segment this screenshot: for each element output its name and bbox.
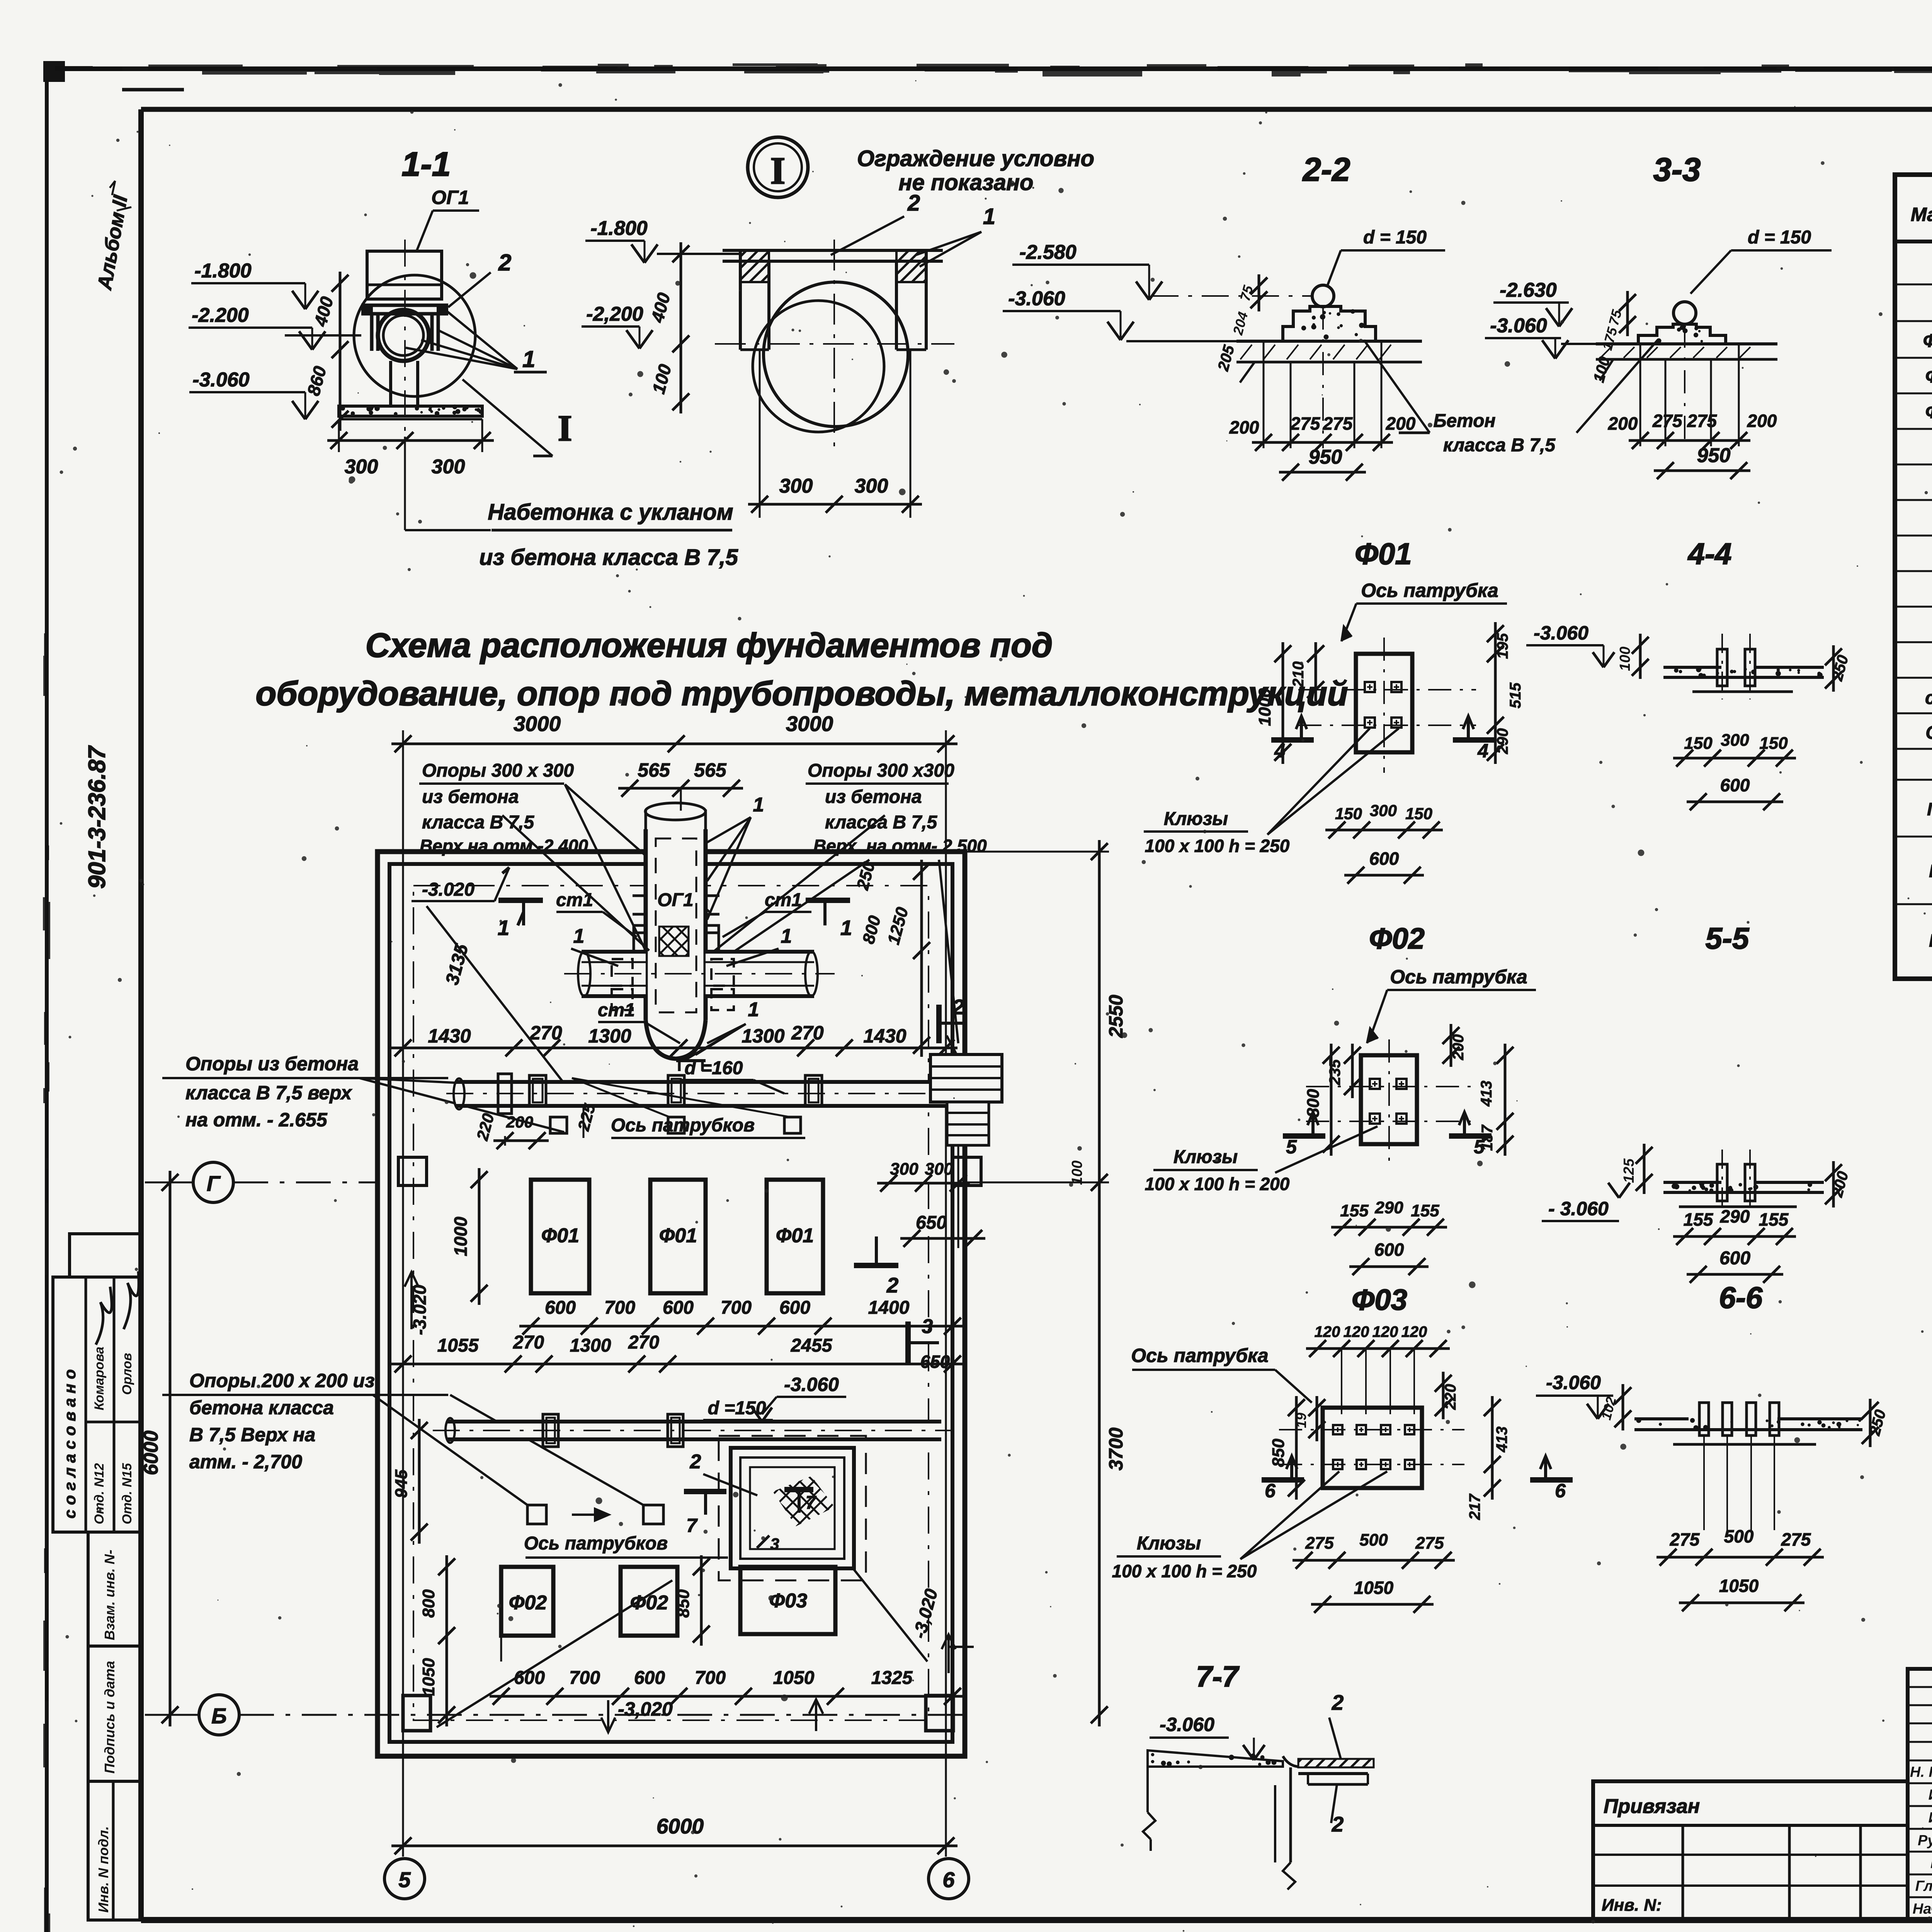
- svg-text:1: 1: [522, 346, 535, 372]
- svg-text:из бетона класса В 7,5: из бетона класса В 7,5: [479, 545, 738, 570]
- svg-text:Ф03: Ф03: [769, 1590, 808, 1612]
- svg-text:Набетонка с укланом: Набетонка с укланом: [488, 500, 733, 525]
- svg-text:d = 150: d = 150: [1363, 227, 1427, 248]
- plan left annotation опоры -2.655: [162, 1053, 564, 1132]
- svg-text:Бетон: Бетон: [1433, 411, 1495, 431]
- svg-text:600: 600: [1720, 775, 1750, 795]
- svg-text:1300: 1300: [742, 1025, 784, 1047]
- svg-text:2: 2: [690, 1451, 701, 1473]
- svg-text:120: 120: [1372, 1323, 1398, 1340]
- svg-text:270: 270: [513, 1332, 544, 1353]
- plan long diagonal leaders: [502, 815, 885, 1117]
- svg-text:Орлов: Орлов: [120, 1353, 134, 1395]
- svg-text:125: 125: [1621, 1158, 1637, 1183]
- svg-text:300: 300: [779, 475, 813, 497]
- svg-text:2550: 2550: [1105, 995, 1127, 1038]
- svg-text:650: 650: [920, 1352, 950, 1372]
- svg-text:413: 413: [1493, 1427, 1510, 1453]
- svg-text:1000: 1000: [1255, 688, 1274, 726]
- svg-text:300: 300: [855, 475, 888, 497]
- detail Ф02 label ось патрубка: [1367, 966, 1536, 1043]
- svg-text:3: 3: [770, 1535, 779, 1553]
- svg-text:600: 600: [663, 1298, 694, 1318]
- svg-text:Инв. N подл.: Инв. N подл.: [95, 1826, 111, 1913]
- svg-text:Марка: Марка: [1911, 204, 1932, 225]
- svg-text:1: 1: [498, 916, 510, 940]
- svg-text:Ось патрубка: Ось патрубка: [1361, 580, 1498, 601]
- svg-text:1325: 1325: [871, 1668, 913, 1688]
- detail Ф01 bottom dims: [1325, 801, 1443, 884]
- svg-text:Ф02: Ф02: [1369, 922, 1425, 955]
- plan dims 300 300 650 right: [877, 1145, 985, 1248]
- svg-text:Клюзы: Клюзы: [1164, 809, 1228, 829]
- plan title: [256, 626, 1348, 713]
- svg-text:1050: 1050: [773, 1668, 815, 1688]
- svg-text:Поз. 3: Поз. 3: [1929, 930, 1932, 951]
- svg-text:Н. Контр.: Н. Контр.: [1910, 1764, 1932, 1780]
- plan опоры labels top-right: [701, 760, 987, 1043]
- svg-text:300: 300: [1721, 731, 1749, 750]
- svg-text:235: 235: [1327, 1059, 1344, 1085]
- svg-text:Нач.отд.: Нач.отд.: [1913, 1901, 1932, 1917]
- svg-text:Ф03: Ф03: [1352, 1284, 1407, 1316]
- svg-text:210: 210: [1290, 662, 1307, 688]
- plan dim 565 565: [618, 759, 743, 831]
- svg-text:-1.800: -1.800: [590, 217, 648, 240]
- svg-text:950: 950: [1697, 444, 1731, 467]
- svg-text:800: 800: [419, 1589, 438, 1618]
- svg-text:Ф01: Ф01: [776, 1225, 814, 1247]
- plan ось патрубков label: [611, 1115, 805, 1138]
- svg-text:413: 413: [1478, 1081, 1495, 1107]
- svg-text:700: 700: [721, 1298, 752, 1318]
- detail Ф03 клюзы label: [1112, 1471, 1387, 1581]
- specification table grid: [1895, 175, 1932, 979]
- svg-text:1400: 1400: [868, 1298, 910, 1318]
- svg-text:Ф02: Ф02: [1925, 366, 1932, 387]
- svg-text:Комарова: Комарова: [92, 1347, 107, 1410]
- svg-text:5: 5: [398, 1867, 411, 1892]
- plan section flags 1-1: [498, 900, 852, 940]
- svg-text:-2,200: -2,200: [586, 303, 643, 325]
- section 6-6 view: [1536, 1372, 1889, 1530]
- svg-text:100 х 100 h = 200: 100 х 100 h = 200: [1145, 1174, 1290, 1194]
- svg-text:Поз. 2: Поз. 2: [1929, 861, 1932, 881]
- svg-text:155: 155: [1340, 1201, 1369, 1220]
- svg-text:I: I: [770, 149, 786, 192]
- plan dims under Ф01: [391, 1298, 964, 1372]
- svg-text:-2.200: -2.200: [192, 304, 249, 327]
- note ограждение условно не показано: [857, 146, 1094, 195]
- svg-text:1: 1: [840, 916, 852, 940]
- plan axis Б: [145, 1695, 966, 1735]
- svg-text:290: 290: [1374, 1198, 1403, 1217]
- svg-text:-3.060: -3.060: [784, 1374, 839, 1395]
- svg-text:Клюзы: Клюзы: [1173, 1147, 1238, 1167]
- svg-text:атм. - 2,700: атм. - 2,700: [189, 1451, 302, 1473]
- section 3-3 bottom dims: [1608, 325, 1777, 479]
- svg-text:6000: 6000: [140, 1430, 162, 1475]
- svg-text:901-3-236.87: 901-3-236.87: [84, 745, 111, 889]
- plan right vertical dims 2550 3700: [966, 840, 1127, 1726]
- svg-text:120: 120: [1401, 1323, 1427, 1340]
- svg-text:120: 120: [1344, 1323, 1369, 1340]
- plan bottom dim 6000: [391, 1814, 957, 1854]
- plan ось патрубков 2: [524, 1533, 728, 1558]
- svg-text:1050: 1050: [419, 1658, 438, 1696]
- svg-text:200: 200: [1386, 413, 1416, 434]
- svg-text:150: 150: [1335, 804, 1362, 823]
- svg-text:-1.800: -1.800: [194, 260, 252, 282]
- svg-text:Опоры из бетона: Опоры из бетона: [185, 1053, 359, 1075]
- svg-text:100: 100: [1069, 1160, 1085, 1185]
- svg-text:1050: 1050: [1354, 1578, 1394, 1598]
- svg-text:275: 275: [1305, 1534, 1334, 1553]
- svg-text:1: 1: [573, 925, 585, 947]
- svg-text:Отд. N15: Отд. N15: [120, 1463, 134, 1524]
- svg-text:800: 800: [1304, 1089, 1323, 1117]
- svg-text:600: 600: [779, 1298, 810, 1318]
- svg-text:217: 217: [1466, 1493, 1483, 1520]
- svg-text:Г: Г: [207, 1171, 221, 1196]
- svg-text:-3.060: -3.060: [1008, 287, 1065, 310]
- svg-text:2455: 2455: [791, 1335, 833, 1356]
- svg-text:2-2: 2-2: [1302, 151, 1350, 188]
- margin label Альбом II: [93, 181, 132, 292]
- plan dim row 1430/270/1300/1300/270/1430: [391, 1022, 957, 1056]
- svg-text:6000: 6000: [656, 1814, 704, 1838]
- plan lower pipe 2 d=150: [433, 1374, 951, 1524]
- svg-text:7: 7: [806, 1493, 817, 1513]
- svg-text:4-4: 4-4: [1687, 537, 1732, 571]
- svg-text:1430: 1430: [863, 1025, 906, 1047]
- svg-text:1050: 1050: [1719, 1576, 1759, 1596]
- leader бетон класса В7,5: [1364, 340, 1658, 456]
- detail Ф02 section marks 5: [1283, 1112, 1492, 1158]
- svg-text:Ф01: Ф01: [659, 1225, 697, 1247]
- svg-text:Схема расположения фундаментов: Схема расположения фундаментов под: [366, 626, 1053, 664]
- svg-text:5: 5: [1286, 1136, 1297, 1158]
- svg-text:150: 150: [1405, 804, 1432, 823]
- svg-text:Клюзы: Клюзы: [1137, 1533, 1201, 1554]
- svg-text:ст1: ст1: [598, 1000, 635, 1020]
- svg-text:Подпись и дата: Подпись и дата: [102, 1661, 117, 1774]
- plan top dim 3000+3000: [391, 712, 957, 1857]
- svg-text:Ф02: Ф02: [509, 1592, 547, 1614]
- plan small dims 220 200 225: [473, 1102, 599, 1149]
- svg-text:155: 155: [1411, 1201, 1439, 1220]
- svg-text:850: 850: [1269, 1439, 1288, 1467]
- plan building outline: [378, 852, 965, 1756]
- svg-text:200: 200: [1608, 413, 1638, 434]
- svg-text:ОГ1: ОГ1: [657, 890, 694, 910]
- detail Ф01 клюзы label: [1144, 728, 1399, 856]
- detail Ф03 bottom dims: [1293, 1531, 1455, 1613]
- svg-text:2: 2: [498, 250, 511, 276]
- svg-text:300: 300: [890, 1160, 918, 1179]
- svg-text:Ф01: Ф01: [1923, 331, 1932, 351]
- svg-text:275: 275: [1290, 413, 1321, 434]
- plan rotated dims 3135 250 800 1250: [442, 859, 930, 1057]
- plan Ф02 Ф03 foundations: [501, 1567, 835, 1662]
- section 2-2 view: [1003, 227, 1445, 383]
- svg-text:из бетона: из бетона: [825, 787, 922, 807]
- svg-text:1-1: 1-1: [401, 145, 451, 183]
- svg-text:600: 600: [1369, 849, 1399, 869]
- detail Ф02 dims: [1304, 1024, 1514, 1156]
- svg-text:290: 290: [1720, 1206, 1750, 1226]
- svg-text:3000: 3000: [786, 712, 833, 736]
- plan leader -3.020 top left: [412, 867, 580, 1104]
- svg-text:Рук. др.: Рук. др.: [1918, 1832, 1932, 1849]
- detail I circle symbol: [748, 137, 808, 197]
- svg-text:6: 6: [942, 1867, 955, 1892]
- plan annotation опоры 200x200: [162, 1370, 643, 1505]
- svg-text:на отм. - 2.655: на отм. - 2.655: [185, 1109, 328, 1131]
- svg-text:Отд. N12: Отд. N12: [92, 1463, 107, 1524]
- svg-text:600: 600: [514, 1668, 545, 1688]
- svg-text:270: 270: [628, 1332, 659, 1353]
- svg-text:Инж.: Инж.: [1929, 1810, 1932, 1826]
- svg-text:300: 300: [925, 1160, 953, 1179]
- svg-text:Поз. 1: Поз. 1: [1927, 799, 1932, 819]
- svg-text:150: 150: [1684, 734, 1713, 753]
- specification table body texts: [1923, 257, 1932, 979]
- svg-text:3700: 3700: [1105, 1427, 1127, 1470]
- svg-text:275: 275: [1670, 1529, 1700, 1549]
- plan axis circles 5 6: [384, 1859, 969, 1899]
- svg-text:100: 100: [1617, 646, 1633, 671]
- plan dim 1000: [451, 1168, 488, 1305]
- svg-text:Ф01: Ф01: [1355, 537, 1412, 571]
- plan dims 800 1050 850: [419, 1555, 710, 1726]
- svg-text:187: 187: [1479, 1124, 1496, 1151]
- plan section flag 3 right: [908, 1315, 950, 1372]
- svg-text:с о г л а с о в а н о: с о г л а с о в а н о: [61, 1369, 79, 1519]
- svg-text:Б: Б: [211, 1704, 227, 1728]
- svg-text:3000: 3000: [514, 712, 561, 736]
- svg-text:700: 700: [569, 1668, 600, 1688]
- svg-text:6-6: 6-6: [1719, 1281, 1763, 1315]
- plan wall pilasters on axis Г: [398, 1157, 981, 1185]
- svg-text:класса В 7,5: класса В 7,5: [825, 812, 938, 833]
- svg-text:700: 700: [604, 1298, 635, 1318]
- title block signature stamp: [1908, 1669, 1932, 1920]
- svg-text:Ограждение условно: Ограждение условно: [857, 146, 1094, 171]
- svg-text:700: 700: [695, 1668, 726, 1688]
- stamp box Взам. инв. N: [88, 1532, 141, 1646]
- detail Ф03 label ось патрубка: [1131, 1345, 1312, 1403]
- svg-text:Взам. инв. N-: Взам. инв. N-: [102, 1550, 117, 1641]
- detail Ф03 section marks 6: [1262, 1456, 1573, 1502]
- svg-text:-2.580: -2.580: [1019, 241, 1077, 264]
- detail Ф01 dims: [1255, 622, 1524, 764]
- svg-text:4: 4: [1477, 740, 1488, 762]
- detail Ф02 bottom dims: [1331, 1198, 1447, 1275]
- svg-text:-3.060: -3.060: [192, 369, 250, 391]
- svg-text:850: 850: [674, 1589, 693, 1618]
- svg-text:1300: 1300: [570, 1335, 611, 1356]
- svg-text:1300: 1300: [588, 1025, 631, 1047]
- plan Ф01 foundations: [531, 1180, 823, 1293]
- svg-text:275: 275: [1323, 413, 1353, 434]
- svg-text:300: 300: [345, 456, 378, 478]
- plan ст1 and ОГ1 labels: [556, 794, 811, 1061]
- detail Ф03 plan: [1279, 1408, 1464, 1488]
- svg-text:565: 565: [638, 759, 670, 781]
- svg-text:200: 200: [1450, 1034, 1467, 1061]
- svg-text:-3.060: -3.060: [1490, 315, 1547, 337]
- plan section flag 2 bottom: [854, 1236, 899, 1297]
- svg-text:Ось патрубка: Ось патрубка: [1390, 966, 1527, 988]
- svg-text:Опоры 300 х300: Опоры 300 х300: [808, 760, 954, 781]
- section 1-1 level marks: [189, 260, 325, 419]
- detail I plan bottom dims 300/300: [748, 350, 922, 518]
- svg-text:-3,020: -3,020: [618, 1698, 673, 1720]
- svg-text:ОГ1: ОГ1: [431, 187, 469, 208]
- svg-text:1: 1: [748, 998, 759, 1021]
- svg-text:ОГ1: ОГ1: [1925, 723, 1932, 743]
- svg-text:бетона класса: бетона класса: [189, 1397, 334, 1418]
- svg-text:300: 300: [1370, 801, 1397, 820]
- plan pit 7-7 square: [684, 1436, 866, 1580]
- section 3-3 view: [1485, 227, 1832, 384]
- svg-text:d =160: d =160: [685, 1058, 743, 1078]
- plan lower pipe d=160: [446, 1058, 989, 1114]
- svg-text:d = 150: d = 150: [1748, 227, 1811, 248]
- svg-text:- 3.060: - 3.060: [1548, 1198, 1609, 1219]
- svg-text:Гл.спец.: Гл.спец.: [1915, 1878, 1932, 1894]
- plan corner pilasters axis Б: [403, 1570, 953, 1731]
- section 5-5 view: [1542, 1144, 1852, 1221]
- svg-text:275: 275: [1415, 1534, 1444, 1553]
- svg-text:Инж.: Инж.: [1929, 1787, 1932, 1803]
- svg-text:ГИП: ГИП: [1930, 1855, 1932, 1871]
- svg-text:-3.060: -3.060: [1160, 1714, 1214, 1735]
- svg-text:155: 155: [1759, 1209, 1789, 1230]
- svg-text:500: 500: [1724, 1526, 1754, 1546]
- svg-text:класса В 7,5 верх: класса В 7,5 верх: [185, 1082, 352, 1104]
- detail Ф02 plan: [1306, 1039, 1472, 1163]
- svg-text:5-5: 5-5: [1706, 921, 1750, 955]
- svg-text:565: 565: [694, 759, 727, 781]
- svg-text:600: 600: [1719, 1248, 1750, 1269]
- svg-text:515: 515: [1507, 682, 1524, 708]
- detail I plan level marks and dims: [582, 217, 740, 413]
- svg-text:19: 19: [1293, 1413, 1309, 1428]
- svg-text:1055: 1055: [437, 1335, 479, 1356]
- svg-text:1: 1: [781, 925, 792, 947]
- plan опоры labels top-left: [419, 760, 709, 974]
- svg-text:Опоры 200 х 200 из: Опоры 200 х 200 из: [189, 1370, 375, 1391]
- detail Ф01 plan: [1298, 638, 1476, 773]
- svg-text:1000: 1000: [451, 1216, 471, 1256]
- section 4-4 view: [1526, 622, 1852, 699]
- svg-text:100 х 100 h = 250: 100 х 100 h = 250: [1112, 1561, 1257, 1581]
- svg-text:Инв. N:: Инв. N:: [1602, 1896, 1662, 1915]
- svg-text:300: 300: [432, 456, 465, 478]
- svg-text:2: 2: [952, 995, 964, 1019]
- detail Ф03 top dims 120x4: [1306, 1323, 1450, 1414]
- svg-text:оборудование, опор под трубопр: оборудование, опор под трубопроводы, мет…: [256, 674, 1348, 713]
- svg-text:200: 200: [1229, 417, 1259, 437]
- section 1-1 bottom dims 300/300: [327, 419, 494, 530]
- svg-text:-3.060: -3.060: [1534, 622, 1588, 644]
- svg-text:1: 1: [753, 794, 764, 816]
- plan rotated -3.020 labels: [405, 1271, 974, 1673]
- svg-text:600: 600: [1374, 1240, 1404, 1260]
- svg-text:275 275: 275 275: [1652, 411, 1718, 431]
- detail Ф03 dims: [1269, 1372, 1510, 1520]
- svg-text:-3.060: -3.060: [1546, 1372, 1601, 1393]
- svg-text:Ф01: Ф01: [541, 1225, 579, 1247]
- svg-text:Опоры 300 х 300: Опоры 300 х 300: [422, 760, 574, 781]
- svg-text:I: I: [558, 408, 572, 449]
- plan section flag 2 right: [939, 995, 989, 1117]
- svg-text:В 7,5 Верх на: В 7,5 Верх на: [189, 1424, 315, 1446]
- svg-text:7: 7: [686, 1515, 698, 1536]
- svg-text:-3.020: -3.020: [422, 879, 474, 900]
- svg-text:600: 600: [634, 1668, 665, 1688]
- svg-text:Ось патрубков: Ось патрубков: [524, 1533, 668, 1554]
- svg-text:220: 220: [1442, 1384, 1459, 1410]
- plan stair ladder right: [930, 1054, 1002, 1145]
- svg-text:Ось патрубков: Ось патрубков: [611, 1115, 755, 1136]
- plan horizontal pipe at tank: [564, 951, 835, 1010]
- plan bottom dim row: [490, 1668, 964, 1732]
- plan pipe anchor squares: [550, 1117, 801, 1133]
- svg-text:600: 600: [545, 1298, 576, 1318]
- section 1-1 vertical dims 400/860: [303, 272, 349, 431]
- stamp box согласовано: [53, 1234, 141, 1532]
- plan vertical dim 6000 left: [140, 1171, 179, 1726]
- detail I plan view: [715, 190, 995, 448]
- svg-text:7-7: 7-7: [1196, 1660, 1240, 1693]
- detail Ф01 label ось патрубка: [1342, 580, 1507, 641]
- plan central tank: [633, 803, 719, 1071]
- section 5-5 dims: [1673, 1206, 1796, 1283]
- svg-text:6: 6: [1265, 1480, 1276, 1502]
- detail Ф01 section marks 4: [1271, 716, 1495, 762]
- detail Ф02 клюзы label: [1145, 1126, 1378, 1194]
- svg-text:120: 120: [1315, 1323, 1340, 1340]
- svg-text:из бетона: из бетона: [422, 787, 519, 807]
- section 4-4 dims: [1673, 731, 1796, 810]
- stamp box Подпись и дата: [88, 1646, 141, 1781]
- section 2-2 bottom dims: [1229, 306, 1416, 481]
- svg-text:1: 1: [983, 204, 995, 229]
- svg-text:3-3: 3-3: [1653, 151, 1701, 188]
- stamp box Инв. N подл.: [88, 1781, 141, 1920]
- svg-text:200: 200: [506, 1113, 533, 1131]
- section 6-6 dims: [1656, 1526, 1824, 1611]
- svg-text:1430: 1430: [428, 1025, 471, 1047]
- svg-text:Ось патрубка: Ось патрубка: [1131, 1345, 1268, 1366]
- plan axis Г: [145, 1162, 378, 1202]
- svg-text:-2.630: -2.630: [1500, 279, 1557, 301]
- svg-text:945: 945: [392, 1469, 411, 1498]
- svg-text:155: 155: [1684, 1209, 1714, 1230]
- svg-text:2: 2: [886, 1273, 899, 1297]
- svg-text:ст1: ст1: [1925, 688, 1932, 708]
- svg-text:950: 950: [1309, 446, 1342, 468]
- svg-text:2: 2: [907, 190, 920, 216]
- section 7-7 view: [1143, 1690, 1374, 1889]
- svg-text:2: 2: [1332, 1690, 1344, 1714]
- title block привязан table: [1593, 1781, 1908, 1920]
- svg-text:6: 6: [1555, 1480, 1566, 1502]
- svg-text:класса В 7,5: класса В 7,5: [1443, 435, 1556, 456]
